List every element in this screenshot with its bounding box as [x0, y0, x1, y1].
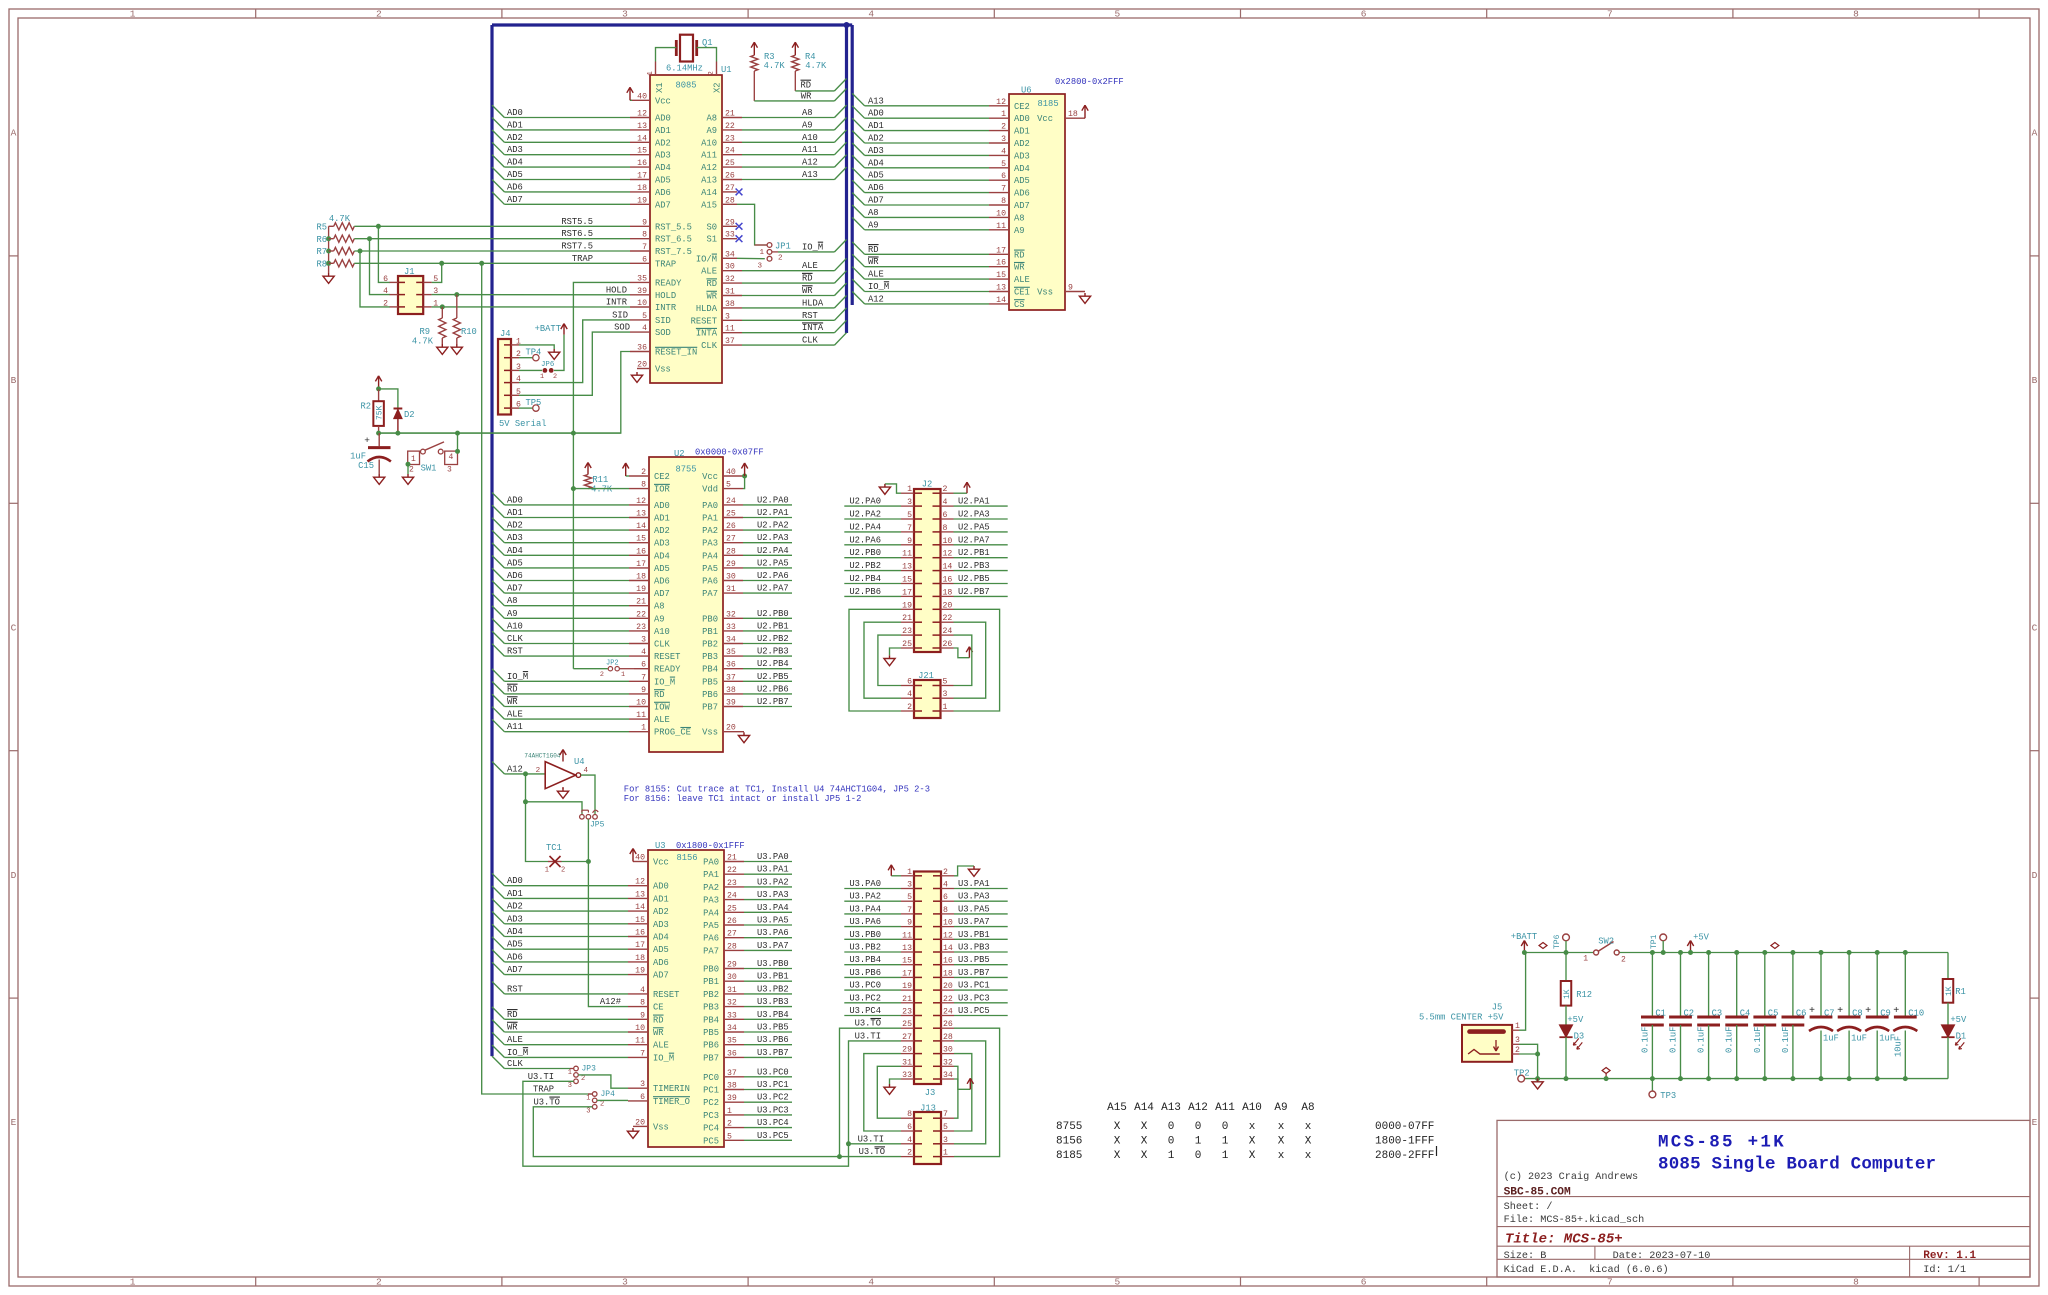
U3 pin 10 WR with bus entry — [492, 1020, 664, 1038]
svg-text:R6: R6 — [316, 235, 327, 245]
svg-text:1: 1 — [727, 1107, 732, 1116]
svg-text:10: 10 — [943, 919, 953, 928]
svg-text:2: 2 — [581, 1075, 585, 1083]
U6 pin 13 CE1 with bus entry — [852, 279, 1030, 297]
svg-text:37: 37 — [725, 337, 735, 346]
note text 8155/8156 options — [624, 785, 930, 804]
svg-text:A11: A11 — [802, 145, 818, 155]
svg-text:5.5mm CENTER +5V: 5.5mm CENTER +5V — [1419, 1013, 1504, 1023]
capacitor C8 1uF — [1837, 950, 1867, 1081]
U1 pin A9 wire to bus — [706, 118, 846, 136]
svg-text:1: 1 — [641, 724, 646, 733]
J3 pin33 to ground — [884, 1079, 901, 1094]
J2 pins 3 4 — [901, 498, 954, 507]
svg-text:U1: U1 — [721, 65, 732, 75]
U6 pin 12 CE2 with bus entry — [852, 93, 1030, 111]
svg-text:32: 32 — [725, 275, 735, 284]
svg-text:INTR: INTR — [655, 303, 677, 313]
svg-text:6: 6 — [383, 275, 388, 284]
svg-text:14: 14 — [943, 563, 953, 572]
J3 wire U3.PC5 — [954, 1006, 1008, 1016]
U2 pin 25 PA1 label U2.PA1 — [702, 508, 792, 524]
svg-text:AD0: AD0 — [868, 109, 884, 119]
svg-text:READY: READY — [655, 278, 682, 288]
svg-text:7: 7 — [1607, 9, 1613, 20]
J2 pins 15 16 — [901, 576, 954, 585]
CPU U1 8085 — [647, 62, 732, 384]
U2 pin 39 PB7 label U2.PB7 — [702, 697, 792, 713]
J13 pins 4 3 — [901, 1136, 954, 1145]
svg-text:U3.PB4: U3.PB4 — [849, 955, 881, 965]
capacitor C15 1uF — [350, 433, 391, 484]
svg-text:AD2: AD2 — [654, 526, 670, 536]
wire RST6.5 net R6 to U1 — [354, 236, 630, 294]
svg-text:5: 5 — [642, 312, 647, 321]
svg-text:39: 39 — [727, 1094, 737, 1103]
J3 wire U3.PB5 — [954, 955, 1008, 965]
svg-text:4: 4 — [943, 498, 948, 507]
svg-text:31: 31 — [727, 986, 737, 995]
svg-text:3: 3 — [943, 1136, 948, 1145]
U2 pin 16 AD4 with bus entry — [492, 543, 670, 561]
wire SW1 to ground — [402, 462, 413, 485]
svg-text:For 8156: leave TC1 intact or: For 8156: leave TC1 intact or install JP… — [624, 794, 862, 804]
svg-text:26: 26 — [726, 522, 736, 531]
svg-text:PA4: PA4 — [702, 551, 718, 561]
J3 pins 31 32 — [901, 1058, 954, 1067]
svg-text:U2.PB4: U2.PB4 — [757, 659, 789, 669]
svg-text:2: 2 — [409, 466, 414, 475]
svg-text:10: 10 — [943, 537, 953, 546]
svg-text:PB6: PB6 — [703, 1041, 719, 1051]
svg-text:U2.PB4: U2.PB4 — [849, 574, 881, 584]
svg-text:30: 30 — [943, 1046, 953, 1055]
svg-text:8: 8 — [641, 481, 646, 490]
svg-text:A9: A9 — [1274, 1102, 1287, 1114]
svg-text:U3.PB3: U3.PB3 — [757, 997, 789, 1007]
svg-text:READY: READY — [654, 665, 681, 675]
svg-text:IO_M: IO_M — [653, 1053, 674, 1063]
svg-text:13: 13 — [636, 510, 646, 519]
svg-text:8: 8 — [943, 524, 948, 533]
svg-text:C3: C3 — [1712, 1009, 1723, 1019]
svg-text:1: 1 — [130, 9, 136, 20]
J3 pins 9 10 — [901, 919, 954, 928]
bus top horizontal — [492, 23, 852, 26]
J3 pins 13 14 — [901, 944, 954, 953]
svg-text:21: 21 — [725, 110, 735, 119]
J3 pins 11 12 — [901, 931, 954, 940]
wire A12# to U3 CE — [588, 862, 628, 1008]
svg-text:TP4: TP4 — [526, 348, 542, 358]
svg-text:AD5: AD5 — [507, 170, 523, 180]
svg-text:1uF: 1uF — [1823, 1034, 1839, 1044]
svg-text:U2.PB6: U2.PB6 — [849, 587, 881, 597]
U1 pin 5 SID — [612, 310, 671, 326]
title block fields — [1504, 1171, 1977, 1276]
svg-text:27: 27 — [727, 930, 737, 939]
svg-text:U3.PC2: U3.PC2 — [757, 1093, 789, 1103]
svg-text:J4: J4 — [500, 329, 511, 339]
svg-text:22: 22 — [943, 995, 953, 1004]
svg-text:U2.PA1: U2.PA1 — [757, 508, 789, 518]
svg-text:21: 21 — [727, 854, 737, 863]
J3 wire U3.PA5 — [954, 904, 1008, 914]
svg-text:AD5: AD5 — [507, 940, 523, 950]
svg-text:17: 17 — [635, 941, 645, 950]
svg-text:16: 16 — [636, 547, 646, 556]
capacitor C10 10uF — [1893, 950, 1924, 1081]
J2 pins 17 18 — [901, 588, 954, 597]
svg-text:12: 12 — [637, 110, 647, 119]
U3 pin 39 PC2 label U3.PC2 — [703, 1093, 792, 1109]
svg-text:RST7.5: RST7.5 — [561, 242, 593, 252]
svg-text:U3.PA6: U3.PA6 — [849, 917, 881, 927]
svg-text:C7: C7 — [1824, 1009, 1835, 1019]
svg-text:AD3: AD3 — [868, 146, 884, 156]
resistor R7 — [316, 247, 354, 257]
svg-text:U3.PC3: U3.PC3 — [958, 993, 990, 1003]
svg-text:4: 4 — [868, 9, 874, 20]
svg-text:AD5: AD5 — [1014, 176, 1030, 186]
svg-text:1: 1 — [621, 671, 625, 679]
svg-text:U2.PA4: U2.PA4 — [849, 522, 881, 532]
svg-text:25: 25 — [726, 510, 736, 519]
svg-text:U3.PA4: U3.PA4 — [757, 903, 789, 913]
svg-text:3: 3 — [907, 881, 912, 890]
U3 pin 13 AD1 with bus entry — [492, 886, 669, 904]
U1 pin A13 wire to bus — [701, 167, 846, 185]
svg-text:U3.PA5: U3.PA5 — [757, 916, 789, 926]
U2 pin 28 PA4 label U2.PA4 — [702, 546, 792, 562]
svg-text:22: 22 — [636, 610, 646, 619]
svg-text:JP6: JP6 — [541, 361, 554, 369]
svg-text:PA7: PA7 — [703, 946, 719, 956]
U3 pin 34 PB5 label U3.PB5 — [703, 1023, 792, 1039]
svg-text:3: 3 — [943, 690, 948, 699]
svg-text:3: 3 — [447, 466, 452, 475]
svg-text:KiCad E.D.A. kicad (6.0.6): KiCad E.D.A. kicad (6.0.6) — [1504, 1264, 1669, 1276]
svg-text:A8: A8 — [706, 114, 717, 124]
diode D2 — [379, 389, 415, 433]
svg-text:File: MCS-85+.kicad_sch: File: MCS-85+.kicad_sch — [1504, 1214, 1645, 1226]
svg-text:33: 33 — [902, 1071, 912, 1080]
bus vertical left — [490, 25, 493, 1056]
U2 pin 15 AD3 with bus entry — [492, 530, 670, 548]
svg-text:7: 7 — [642, 243, 647, 252]
U1 pin A12 wire to bus — [701, 155, 846, 173]
svg-text:3: 3 — [622, 1277, 628, 1288]
svg-text:31: 31 — [726, 585, 736, 594]
svg-text:34: 34 — [727, 1024, 737, 1033]
svg-text:0x1800-0x1FFF: 0x1800-0x1FFF — [676, 841, 745, 851]
svg-text:U3.TI: U3.TI — [528, 1072, 554, 1082]
svg-text:U2.PA5: U2.PA5 — [757, 558, 789, 568]
U3 pin 3 TIMERIN — [628, 1080, 690, 1094]
barrel jack J5 — [1419, 1003, 1512, 1062]
svg-text:U2.PA7: U2.PA7 — [958, 535, 990, 545]
svg-text:30: 30 — [726, 573, 736, 582]
U1 pin AD1 with wire and bus entry — [492, 118, 671, 136]
svg-text:2: 2 — [376, 9, 382, 20]
svg-text:ALE: ALE — [868, 270, 884, 280]
svg-text:ALE: ALE — [701, 267, 717, 277]
U2 pin 34 PB2 label U2.PB2 — [702, 634, 792, 650]
svg-text:2: 2 — [376, 1277, 382, 1288]
svg-text:U2.PA3: U2.PA3 — [757, 533, 789, 543]
svg-text:PB7: PB7 — [702, 703, 718, 713]
U1 pin 31 WR wire to bus — [706, 283, 846, 301]
svg-text:13: 13 — [902, 944, 912, 953]
svg-text:Size: B: Size: B — [1504, 1250, 1547, 1262]
svg-text:5: 5 — [727, 1132, 732, 1141]
resistor R5 — [316, 223, 354, 233]
svg-text:U3.PC5: U3.PC5 — [757, 1131, 789, 1141]
svg-text:1K: 1K — [1945, 986, 1954, 996]
wire CLK from bus to JP3 — [492, 1056, 570, 1069]
svg-text:PB3: PB3 — [703, 1003, 719, 1013]
svg-text:WR: WR — [802, 286, 813, 296]
svg-text:E: E — [2032, 1117, 2038, 1128]
J13 U3.TO junction and label — [837, 1147, 901, 1159]
svg-text:U2.PB3: U2.PB3 — [757, 647, 789, 657]
J3 wire U3.PC2 — [844, 993, 901, 1003]
svg-text:6.14MHz: 6.14MHz — [666, 64, 703, 74]
svg-text:R11: R11 — [592, 475, 608, 485]
U2 pin 29 PA5 label U2.PA5 — [702, 558, 792, 574]
svg-text:8: 8 — [943, 906, 948, 915]
svg-text:RST6.5: RST6.5 — [561, 229, 593, 239]
svg-text:+5V: +5V — [1950, 1015, 1967, 1025]
svg-text:25: 25 — [725, 159, 735, 168]
J5 pin1 wire to +BATT rail — [1512, 953, 1526, 1032]
svg-text:32: 32 — [943, 1058, 953, 1067]
svg-text:AD4: AD4 — [1014, 164, 1030, 174]
svg-text:U3.PB2: U3.PB2 — [849, 943, 881, 953]
svg-text:6: 6 — [641, 661, 646, 670]
svg-text:AD0: AD0 — [507, 108, 523, 118]
svg-text:1: 1 — [545, 867, 549, 875]
svg-text:X: X — [1141, 1150, 1148, 1162]
svg-text:HLDA: HLDA — [696, 304, 718, 314]
svg-text:E: E — [11, 1117, 17, 1128]
svg-text:J5: J5 — [1492, 1003, 1503, 1013]
U2 pin 18 AD6 with bus entry — [492, 568, 670, 586]
U2 pin 35 PB3 label U2.PB3 — [702, 647, 792, 663]
svg-text:4: 4 — [943, 881, 948, 890]
svg-text:AD7: AD7 — [653, 971, 669, 981]
svg-text:7: 7 — [1607, 1277, 1613, 1288]
svg-text:WR: WR — [706, 292, 717, 302]
svg-text:A9: A9 — [802, 120, 813, 130]
U3 pin 35 PB6 label U3.PB6 — [703, 1035, 792, 1051]
svg-text:A8: A8 — [507, 596, 518, 606]
svg-text:U2.PA4: U2.PA4 — [757, 546, 789, 556]
J2 wire U2.PB6 — [844, 587, 901, 597]
capacitor C5 0.1uF — [1753, 950, 1779, 1081]
svg-text:20: 20 — [726, 724, 736, 733]
svg-text:U2.PB7: U2.PB7 — [757, 697, 789, 707]
svg-text:AD3: AD3 — [507, 533, 523, 543]
J13 pins 6 5 — [901, 1123, 954, 1132]
wire loop J2.22 to J21.3 — [954, 622, 986, 698]
resistor R8 — [316, 260, 354, 270]
title block — [1497, 1120, 2030, 1277]
svg-text:U3.PB1: U3.PB1 — [958, 930, 990, 940]
svg-text:9: 9 — [641, 686, 646, 695]
svg-text:11: 11 — [996, 222, 1006, 231]
svg-text:1: 1 — [907, 485, 912, 494]
svg-text:U3.PA2: U3.PA2 — [757, 877, 789, 887]
svg-text:4.7K: 4.7K — [591, 485, 613, 495]
svg-text:AD2: AD2 — [507, 133, 523, 143]
svg-text:29: 29 — [902, 1046, 912, 1055]
svg-text:RST5.5: RST5.5 — [561, 217, 593, 227]
power rail ground — [1525, 1078, 1948, 1080]
U1 pin 10 INTR — [606, 298, 677, 314]
U2 pin 8 IOR — [629, 481, 671, 495]
svg-text:U3.PB3: U3.PB3 — [958, 943, 990, 953]
J21 pins 4 3 — [901, 690, 954, 699]
wire loop J2.24 to J21.5 — [954, 635, 972, 685]
svg-text:WR: WR — [653, 1028, 664, 1038]
svg-text:AD3: AD3 — [507, 145, 523, 155]
svg-text:AD6: AD6 — [1014, 189, 1030, 199]
J3 pins 33 34 — [901, 1071, 954, 1080]
svg-text:WR: WR — [1014, 263, 1025, 273]
svg-text:AD1: AD1 — [507, 508, 523, 518]
svg-text:+: + — [1809, 1006, 1815, 1017]
U6 pin 5 AD4 with bus entry — [852, 155, 1030, 173]
svg-text:Vss: Vss — [653, 1122, 669, 1132]
RAM/IO U3 8156 — [648, 841, 745, 1147]
svg-text:U3.PA0: U3.PA0 — [849, 879, 881, 889]
U2 pin 17 AD5 with bus entry — [492, 556, 670, 574]
svg-text:A14: A14 — [701, 188, 717, 198]
svg-text:C6: C6 — [1796, 1009, 1807, 1019]
svg-text:A10: A10 — [701, 138, 717, 148]
svg-text:35: 35 — [637, 274, 647, 283]
svg-text:ALE: ALE — [654, 715, 670, 725]
svg-text:AD2: AD2 — [868, 134, 884, 144]
svg-text:PA4: PA4 — [703, 908, 719, 918]
svg-text:2: 2 — [1001, 123, 1006, 132]
svg-text:18: 18 — [636, 573, 646, 582]
svg-text:4: 4 — [641, 648, 646, 657]
svg-text:13: 13 — [637, 122, 647, 131]
svg-text:R5: R5 — [316, 223, 327, 233]
svg-text:SBC-85.COM: SBC-85.COM — [1504, 1186, 1571, 1198]
svg-text:AD2: AD2 — [507, 902, 523, 912]
U3 pin 9 RD with bus entry — [492, 1007, 664, 1025]
svg-text:3: 3 — [1001, 135, 1006, 144]
svg-text:SW2: SW2 — [1598, 937, 1614, 947]
svg-text:6: 6 — [642, 255, 647, 264]
svg-text:6: 6 — [943, 893, 948, 902]
svg-text:A10: A10 — [1242, 1102, 1262, 1114]
svg-text:PC0: PC0 — [703, 1073, 719, 1083]
U3 pin 28 PA7 label U3.PA7 — [703, 941, 792, 957]
connector J1 — [383, 267, 438, 314]
svg-text:4: 4 — [1001, 147, 1006, 156]
svg-text:S0: S0 — [706, 222, 717, 232]
svg-text:RST: RST — [802, 311, 818, 321]
J2 pin26 to +5V — [954, 647, 973, 658]
svg-text:U3.PB5: U3.PB5 — [958, 955, 990, 965]
svg-text:U3.PB6: U3.PB6 — [757, 1035, 789, 1045]
svg-text:X: X — [1114, 1136, 1121, 1148]
svg-text:6: 6 — [907, 678, 912, 687]
svg-text:TP6: TP6 — [1553, 934, 1562, 949]
U2 pin 21 A8 with bus entry — [492, 593, 665, 611]
svg-text:18: 18 — [943, 588, 953, 597]
U2 pin 36 PB4 label U2.PB4 — [702, 659, 792, 675]
svg-text:R2: R2 — [360, 402, 371, 412]
svg-text:X: X — [1141, 1121, 1148, 1133]
svg-text:Date: 2023-07-10: Date: 2023-07-10 — [1613, 1251, 1711, 1262]
J2 wire U2.PA3 — [954, 510, 1008, 520]
jumper JP6 and +BATT — [519, 324, 567, 381]
svg-text:3: 3 — [641, 636, 646, 645]
J3 wire U3.PA2 — [844, 892, 901, 902]
J13 pins 8 7 — [901, 1110, 954, 1119]
svg-text:29: 29 — [726, 560, 736, 569]
svg-text:A13: A13 — [1161, 1102, 1181, 1114]
svg-text:AD5: AD5 — [868, 171, 884, 181]
svg-text:U3.PB2: U3.PB2 — [757, 984, 789, 994]
svg-text:Vdd: Vdd — [702, 485, 718, 495]
wire SW1 to reset net — [455, 433, 460, 454]
svg-text:SW1: SW1 — [421, 464, 437, 474]
svg-text:Q1: Q1 — [702, 38, 713, 48]
resistor R10 — [451, 295, 477, 355]
power flag diamond top left — [1539, 943, 1547, 949]
svg-text:23: 23 — [727, 879, 737, 888]
J3 wire U3.PC3 — [954, 993, 1008, 1003]
svg-text:5: 5 — [943, 1123, 948, 1132]
svg-text:TRAP: TRAP — [572, 254, 593, 264]
capacitor C1 0.1uF — [1640, 950, 1666, 1081]
svg-text:0: 0 — [1168, 1121, 1175, 1133]
svg-text:AD1: AD1 — [654, 514, 670, 524]
svg-text:U3.PC2: U3.PC2 — [849, 993, 881, 1003]
svg-text:AD7: AD7 — [1014, 201, 1030, 211]
svg-text:AD4: AD4 — [507, 158, 523, 168]
svg-text:30: 30 — [727, 973, 737, 982]
svg-text:A8: A8 — [1014, 213, 1025, 223]
svg-text:U3.PB0: U3.PB0 — [849, 930, 881, 940]
svg-text:17: 17 — [902, 969, 912, 978]
svg-text:X: X — [1141, 1136, 1148, 1148]
U1 pin A8 wire to bus — [706, 105, 846, 123]
svg-text:B: B — [11, 375, 17, 386]
J2 pins 5 6 — [901, 511, 954, 520]
svg-text:17: 17 — [637, 172, 647, 181]
svg-text:37: 37 — [726, 673, 736, 682]
svg-text:31: 31 — [725, 288, 735, 297]
svg-text:28: 28 — [727, 942, 737, 951]
J3 pin30 loop to J13.5 — [954, 1054, 972, 1131]
svg-text:5: 5 — [516, 388, 521, 397]
svg-text:1: 1 — [586, 1095, 590, 1103]
svg-text:AD0: AD0 — [653, 882, 669, 892]
svg-text:U3.PB7: U3.PB7 — [757, 1048, 789, 1058]
svg-text:1: 1 — [647, 71, 655, 76]
svg-text:23: 23 — [725, 134, 735, 143]
svg-text:PA3: PA3 — [703, 896, 719, 906]
svg-text:PC5: PC5 — [703, 1136, 719, 1146]
power rail top — [1524, 952, 1948, 954]
